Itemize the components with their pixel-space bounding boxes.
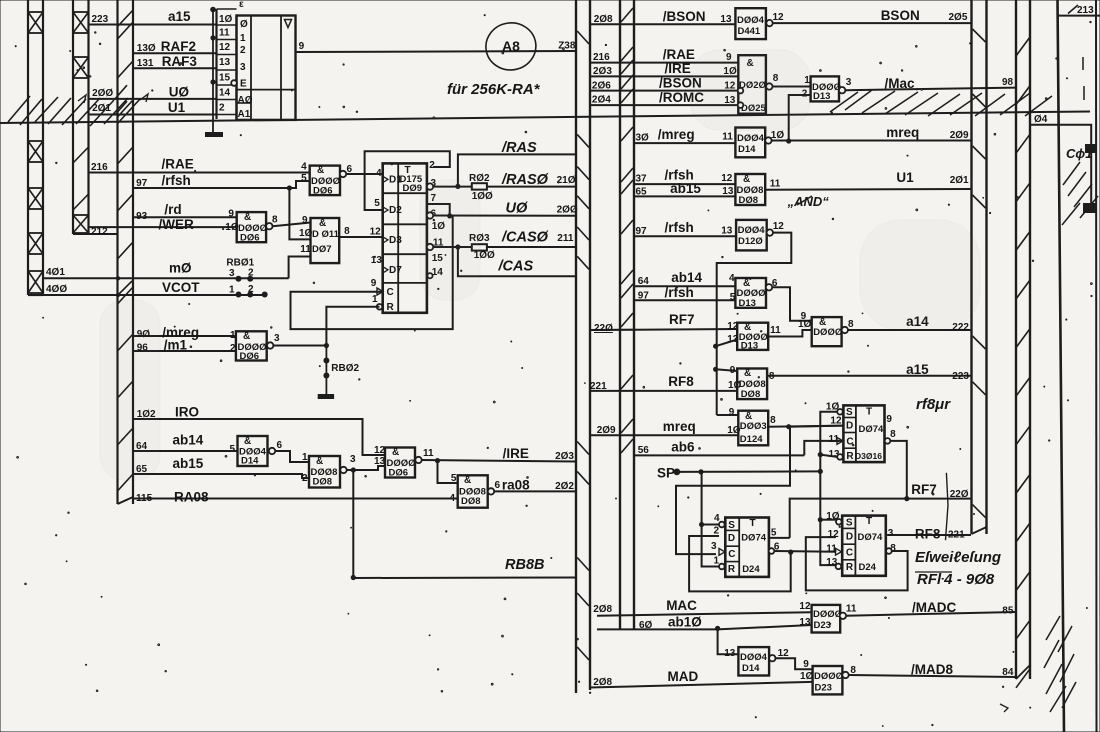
wire D175 R input bbox=[326, 307, 379, 346]
svg-text:DØ6: DØ6 bbox=[240, 351, 260, 362]
wire /WER (212) bbox=[89, 217, 237, 238]
scan toner blotches bbox=[100, 50, 980, 480]
wire FF2 Q6 to FF3 C bbox=[775, 550, 836, 555]
svg-text:3: 3 bbox=[846, 77, 852, 88]
svg-text:5: 5 bbox=[301, 173, 307, 184]
wire /RAE (216) right bbox=[590, 47, 738, 63]
wire /rd (93) bbox=[133, 202, 237, 222]
wire ab15 (65) bbox=[133, 456, 309, 478]
svg-text:D14: D14 bbox=[742, 663, 760, 674]
svg-text:D3: D3 bbox=[389, 235, 402, 246]
svg-text:D13: D13 bbox=[739, 298, 756, 309]
wire SP node bbox=[657, 466, 820, 481]
svg-text:/BSON: /BSON bbox=[663, 9, 706, 24]
gate D003/D124 (mreq+rfsh) bbox=[729, 407, 776, 445]
svg-text:D13: D13 bbox=[813, 91, 830, 102]
svg-text:D3Ø16: D3Ø16 bbox=[855, 451, 882, 461]
svg-text:/mreg: /mreg bbox=[658, 127, 695, 142]
svg-text:C: C bbox=[846, 548, 853, 559]
svg-text:13: 13 bbox=[722, 186, 734, 197]
svg-text:11: 11 bbox=[770, 179, 781, 190]
svg-text:UØ: UØ bbox=[506, 200, 528, 216]
wire /rfsh (97b) right bbox=[634, 285, 736, 303]
wire long horizontal net across sheet bbox=[0, 112, 1090, 124]
svg-text:DØØ4: DØØ4 bbox=[740, 652, 768, 663]
svg-text:D2: D2 bbox=[389, 205, 402, 216]
wire ab14 (64) bbox=[133, 433, 238, 453]
svg-text:für 256K-RA*: für 256K-RA* bbox=[447, 81, 541, 98]
svg-text:1Ø: 1Ø bbox=[219, 14, 233, 25]
gate D000 #6 (a14) bbox=[812, 317, 854, 346]
wire MAD (208) bbox=[590, 669, 814, 688]
wire D06#2 out 8 to D011 pin 9 bbox=[273, 223, 311, 227]
outer hatched bus column bbox=[1016, 0, 1030, 688]
svg-text:/RAS: /RAS bbox=[501, 140, 537, 156]
svg-text:12: 12 bbox=[773, 221, 785, 232]
svg-text:/m1: /m1 bbox=[164, 338, 188, 353]
wire /RAS0 (210) bbox=[433, 172, 576, 188]
svg-text:2Ø9: 2Ø9 bbox=[597, 425, 616, 436]
svg-text:2Ø5: 2Ø5 bbox=[949, 12, 968, 23]
svg-text:65: 65 bbox=[636, 187, 648, 198]
wire /Mac (98) bbox=[845, 76, 1015, 91]
svg-text:2Ø2: 2Ø2 bbox=[555, 481, 574, 492]
svg-text:115: 115 bbox=[136, 493, 153, 504]
svg-text:5: 5 bbox=[374, 198, 380, 209]
wire FF3 D feedback bbox=[806, 537, 908, 590]
register D175/D09 (4-bit latch) bbox=[371, 160, 445, 313]
svg-text:2Ø8: 2Ø8 bbox=[594, 14, 613, 25]
svg-text:D23: D23 bbox=[814, 620, 831, 631]
svg-text:VCOT: VCOT bbox=[162, 280, 200, 295]
svg-text:2ØØ: 2ØØ bbox=[557, 204, 578, 215]
svg-text:1: 1 bbox=[240, 33, 246, 44]
wire RF8 (221) output bbox=[887, 527, 971, 542]
wire /RAE (216) bbox=[89, 157, 310, 174]
svg-text:12: 12 bbox=[773, 12, 785, 23]
svg-text:MAC: MAC bbox=[666, 598, 697, 613]
wire D13#3 pin13 from rfsh node bbox=[716, 340, 738, 347]
wire ab6 to FF1 C bbox=[804, 441, 843, 456]
svg-text:DØØØ: DØØØ bbox=[813, 327, 842, 338]
svg-text:R: R bbox=[387, 302, 395, 313]
svg-text:13: 13 bbox=[219, 57, 231, 68]
svg-text:/MAD8: /MAD8 bbox=[911, 662, 953, 677]
svg-text:&: & bbox=[743, 174, 750, 185]
svg-text:13Ø: 13Ø bbox=[137, 43, 156, 54]
svg-text:D23: D23 bbox=[815, 683, 832, 694]
wire SP branch to FF2 S bbox=[699, 472, 719, 567]
wire ra08 (202) bbox=[494, 478, 576, 493]
svg-text:1: 1 bbox=[302, 452, 308, 463]
svg-text:64: 64 bbox=[638, 276, 650, 287]
ground under RB02 bbox=[318, 376, 334, 397]
svg-text:DØ74: DØ74 bbox=[858, 532, 884, 543]
wire /rfsh (37) bbox=[634, 168, 735, 185]
svg-text:Ø: Ø bbox=[240, 19, 248, 30]
wire RB8B bbox=[351, 470, 576, 580]
svg-text:DØ8: DØ8 bbox=[461, 496, 481, 507]
wire RAF2 (130) to IC pin 12 bbox=[133, 39, 217, 54]
wire RF7 (220) left entry bbox=[590, 312, 739, 334]
wire FF1 Q8 to RF7 bbox=[891, 441, 910, 501]
wire FF2 C from mreq8 loop bbox=[676, 427, 790, 554]
wire FF2 Q5 to RF7 bbox=[769, 537, 790, 539]
svg-text:DØ9: DØ9 bbox=[403, 183, 423, 194]
svg-text:DØ6: DØ6 bbox=[389, 468, 409, 479]
svg-text:E: E bbox=[240, 79, 247, 90]
svg-text:/MADC: /MADC bbox=[912, 600, 956, 615]
svg-text:6: 6 bbox=[277, 440, 283, 451]
wire /IRE (203) bbox=[422, 446, 576, 463]
svg-text:D24: D24 bbox=[859, 562, 877, 573]
svg-text:213: 213 bbox=[1077, 5, 1094, 16]
svg-text:/IRE: /IRE bbox=[665, 61, 691, 76]
wire to D008#2 pin5 bbox=[438, 461, 458, 484]
svg-text:RF8: RF8 bbox=[668, 374, 694, 389]
svg-text:T: T bbox=[866, 407, 872, 418]
wire /BSON (206) right bbox=[590, 76, 738, 92]
svg-text:DØØ4: DØØ4 bbox=[737, 15, 765, 26]
svg-text:8: 8 bbox=[272, 215, 278, 226]
svg-text:2Ø8: 2Ø8 bbox=[593, 677, 612, 688]
svg-text:U1: U1 bbox=[896, 170, 914, 185]
svg-text:223: 223 bbox=[952, 371, 969, 382]
svg-text:/Mac: /Mac bbox=[885, 76, 916, 91]
svg-text:3: 3 bbox=[350, 454, 356, 465]
svg-text:12: 12 bbox=[370, 227, 382, 238]
wire FF1 D from mreq8 bbox=[789, 426, 844, 427]
svg-text:RFŀ4 - 9Ø8: RFŀ4 - 9Ø8 bbox=[917, 571, 995, 588]
svg-text:3: 3 bbox=[240, 62, 246, 73]
wire D003 out 8 node bbox=[768, 424, 843, 429]
svg-text:S: S bbox=[846, 518, 853, 529]
wire RAF3 (131) to IC pin 13 bbox=[133, 54, 217, 69]
hand-drawn hatch scribbles over left buses bbox=[8, 94, 148, 126]
svg-text:2Ø6: 2Ø6 bbox=[592, 81, 611, 92]
wire FF3 Q3 to RF8 bbox=[886, 534, 887, 536]
svg-text:mØ: mØ bbox=[169, 261, 192, 276]
svg-text:S: S bbox=[846, 407, 853, 418]
svg-text:ab6: ab6 bbox=[671, 440, 695, 455]
gate D008/D08 #1 (ab14+ab15) bbox=[302, 454, 356, 488]
svg-text:RAF2: RAF2 bbox=[161, 39, 196, 54]
sheet edge vertical line bbox=[1095, 0, 1098, 732]
svg-text:6Ø: 6Ø bbox=[639, 620, 653, 631]
svg-text:AØ: AØ bbox=[238, 95, 253, 106]
wire ab10 (60) bbox=[597, 615, 812, 632]
svg-text:12: 12 bbox=[219, 42, 231, 53]
svg-text:D24: D24 bbox=[742, 564, 760, 575]
wire BSON (205) bbox=[773, 8, 971, 23]
wire FF1 R stub bbox=[820, 455, 837, 457]
svg-text:&: & bbox=[392, 447, 399, 458]
right panel left border column bbox=[620, 0, 634, 630]
annotation fuer 256K-RAM bbox=[447, 81, 541, 98]
svg-text:/rfsh: /rfsh bbox=[162, 173, 191, 188]
annotation vertical correction stroke bbox=[946, 473, 949, 540]
svg-text:/rfsh: /rfsh bbox=[665, 285, 694, 300]
svg-text:212: 212 bbox=[91, 227, 108, 238]
wire a15 (223) right bbox=[767, 362, 971, 382]
svg-text:12: 12 bbox=[799, 601, 811, 612]
svg-text:C: C bbox=[728, 549, 735, 560]
wire RF7 (220) output bbox=[790, 482, 971, 538]
svg-text:1Ø: 1Ø bbox=[299, 228, 313, 239]
svg-text:2: 2 bbox=[219, 103, 225, 114]
svg-text:3: 3 bbox=[274, 333, 280, 344]
svg-text:UØ: UØ bbox=[169, 85, 189, 100]
wire /ROMC (204) right bbox=[590, 90, 738, 106]
svg-text:/CAS: /CAS bbox=[498, 259, 534, 275]
wire rfsh inverted distribution bbox=[713, 233, 791, 415]
svg-text:22Ø: 22Ø bbox=[594, 323, 613, 334]
svg-text:3: 3 bbox=[888, 528, 894, 539]
svg-text:4Ø1: 4Ø1 bbox=[46, 267, 65, 278]
wire /MADC (85) bbox=[846, 600, 1016, 617]
left panel right border column bbox=[576, 0, 590, 693]
wire RF8 (221) left entry bbox=[590, 374, 742, 392]
svg-text:D1: D1 bbox=[389, 175, 402, 186]
svg-text:„AND“: „AND“ bbox=[787, 194, 830, 209]
svg-text:ab14: ab14 bbox=[173, 433, 204, 448]
svg-text:9: 9 bbox=[299, 41, 305, 52]
svg-text:DØ7: DØ7 bbox=[312, 244, 332, 255]
svg-text:DØØØ: DØØØ bbox=[814, 671, 843, 682]
gate D008/D08 #4 (a15) bbox=[730, 365, 775, 400]
svg-text:R: R bbox=[728, 564, 736, 575]
wire FF3 S from SP rail bbox=[820, 519, 836, 521]
wire D175 pin2 feedback loop bbox=[347, 151, 450, 174]
wire MAC (208) bbox=[593, 598, 811, 616]
wire D011 pin 11 from RB01 bbox=[289, 257, 311, 279]
capacitor C1 hand-drawn top right bbox=[1062, 57, 1098, 225]
wire mreq (209) right entry bbox=[590, 419, 741, 436]
inverter D004/D14 #3 (mreq) bbox=[735, 128, 784, 158]
gate D000/D06 #3 (mreg+m1 NAND) bbox=[230, 330, 280, 362]
svg-text:DØ74: DØ74 bbox=[859, 424, 885, 435]
svg-text:a15: a15 bbox=[906, 362, 929, 377]
gate D020/D025 (4-input AND) bbox=[738, 55, 779, 114]
wire U1 (201) to IC pin 2 bbox=[89, 100, 217, 115]
wire VCOT (400) bbox=[43, 280, 265, 297]
flip-flop D074/D24 (FF3) bbox=[826, 511, 896, 576]
svg-text:ab15: ab15 bbox=[173, 456, 204, 471]
svg-text:DØ8: DØ8 bbox=[739, 195, 759, 206]
wire FF1 S and R to SP rail bbox=[818, 412, 838, 565]
wire D025 out to D13 pin1 bbox=[773, 75, 811, 87]
svg-text:Ø4: Ø4 bbox=[1034, 114, 1048, 125]
wire D175 D2 pin 5 input bbox=[365, 174, 383, 210]
svg-text:DØ74: DØ74 bbox=[741, 533, 767, 544]
wire /BSON (208) bbox=[590, 9, 735, 25]
svg-text:RF8: RF8 bbox=[915, 527, 941, 542]
svg-text:5: 5 bbox=[771, 528, 777, 539]
svg-text:Eſweiℓeſung: Eſweiℓeſung bbox=[915, 549, 1001, 566]
svg-text:DØ8: DØ8 bbox=[313, 477, 333, 488]
svg-text:14: 14 bbox=[219, 88, 231, 99]
svg-text:DØ8: DØ8 bbox=[741, 389, 761, 400]
svg-text:13: 13 bbox=[720, 14, 732, 25]
wire D06#3 out to RB02 node bbox=[273, 343, 329, 348]
svg-text:Z38: Z38 bbox=[558, 41, 576, 52]
svg-text:D: D bbox=[846, 421, 853, 432]
annotation AND handwritten bbox=[787, 194, 830, 209]
wire /RAS tap bbox=[455, 140, 576, 189]
far right thick vertical line bbox=[1058, 0, 1065, 732]
wire /CAS0 (211) bbox=[433, 230, 576, 250]
wire RA08 (115) bbox=[133, 490, 458, 505]
gate D000/D23 #2 (MAD8) bbox=[813, 665, 857, 694]
svg-text:4: 4 bbox=[729, 273, 735, 284]
svg-text:11: 11 bbox=[770, 325, 781, 336]
svg-text:12: 12 bbox=[721, 173, 733, 184]
svg-text:9: 9 bbox=[729, 407, 735, 418]
svg-text:U1: U1 bbox=[168, 100, 186, 115]
svg-text:2ØØ: 2ØØ bbox=[92, 88, 113, 99]
svg-text:11: 11 bbox=[846, 604, 857, 615]
svg-text:37: 37 bbox=[636, 174, 648, 185]
wire /m1 (96) bbox=[133, 338, 236, 354]
wire D008#4 pin9 from rfsh node bbox=[716, 369, 738, 371]
svg-text:2: 2 bbox=[240, 45, 246, 56]
resistor R02 100 bbox=[469, 173, 493, 202]
svg-text:RØ2: RØ2 bbox=[469, 173, 490, 184]
inverter D004/D120 (rfsh) bbox=[736, 220, 784, 251]
svg-text:D14: D14 bbox=[738, 144, 756, 155]
svg-text:8: 8 bbox=[890, 429, 896, 440]
wire m0 (401) bbox=[43, 261, 289, 296]
svg-text:ab15: ab15 bbox=[670, 181, 701, 196]
svg-text:12: 12 bbox=[374, 445, 386, 456]
svg-text:2: 2 bbox=[429, 160, 435, 171]
svg-text:T: T bbox=[750, 518, 756, 529]
svg-text:DØ6: DØ6 bbox=[240, 233, 260, 244]
svg-text:2Ø3: 2Ø3 bbox=[593, 66, 612, 77]
svg-text:&: & bbox=[244, 436, 251, 447]
svg-text:2Ø3: 2Ø3 bbox=[555, 451, 574, 462]
svg-text:2Ø1: 2Ø1 bbox=[950, 175, 969, 186]
svg-text:Cɸ1: Cɸ1 bbox=[1066, 146, 1092, 161]
svg-text:&: & bbox=[316, 456, 323, 467]
wire 04 to capacitor bbox=[1030, 114, 1091, 207]
svg-text:C: C bbox=[387, 287, 394, 298]
right panel right border column bbox=[972, 0, 987, 534]
wire U0 (200) to IC pin 14 bbox=[89, 85, 217, 100]
gate D000/D06 #1 (RAE+rfsh AND) bbox=[301, 162, 352, 197]
svg-text:56: 56 bbox=[638, 445, 650, 456]
svg-text:5: 5 bbox=[230, 444, 236, 455]
annotation circle A8 bbox=[483, 20, 539, 74]
svg-text:2: 2 bbox=[230, 343, 236, 354]
annotation Erweiterung handwritten bbox=[915, 549, 1001, 588]
svg-text:6: 6 bbox=[495, 480, 501, 491]
svg-text:97: 97 bbox=[136, 178, 148, 189]
wire IC output 9 / Z38 to edge bbox=[296, 41, 577, 52]
svg-text:8: 8 bbox=[848, 319, 854, 330]
svg-text:/RAE: /RAE bbox=[162, 157, 194, 172]
svg-text:2: 2 bbox=[714, 526, 720, 537]
svg-text:223: 223 bbox=[92, 14, 109, 25]
svg-text:BSON: BSON bbox=[881, 8, 920, 23]
svg-text:MAD: MAD bbox=[668, 669, 699, 684]
svg-text:D7: D7 bbox=[389, 265, 402, 276]
svg-text:rf8μr: rf8μr bbox=[916, 396, 951, 413]
wire D13#2 out to D000#6 pin9 bbox=[772, 287, 812, 322]
svg-text:4: 4 bbox=[301, 162, 307, 173]
svg-text:9: 9 bbox=[803, 659, 809, 670]
gate D000/D13 #2 (ab14 rfsh) bbox=[735, 278, 778, 309]
svg-text:/rfsh: /rfsh bbox=[665, 220, 694, 235]
svg-text:1Ø: 1Ø bbox=[798, 319, 812, 330]
svg-text:ab14: ab14 bbox=[671, 270, 702, 285]
svg-text:22Ø: 22Ø bbox=[950, 489, 969, 500]
svg-text:211: 211 bbox=[557, 233, 574, 244]
wire D14#1 out to D008#1 pin1 bbox=[275, 451, 309, 463]
wire D008#1 out node bbox=[347, 456, 386, 473]
svg-text:84: 84 bbox=[1002, 667, 1014, 678]
wire U0 out (200) bbox=[433, 200, 578, 218]
gate D008/D08 #2 (ra08) bbox=[450, 475, 501, 508]
svg-text:5: 5 bbox=[451, 473, 457, 484]
annotation rf8ur handwritten bbox=[916, 396, 951, 413]
wire 213 stub top right bbox=[1058, 5, 1100, 16]
svg-text:D441: D441 bbox=[738, 26, 761, 37]
svg-text:216: 216 bbox=[91, 162, 108, 173]
wire /mreg (90) bbox=[133, 325, 236, 340]
svg-text:&: & bbox=[243, 331, 250, 342]
wire /MAD8 (84) bbox=[849, 662, 1016, 678]
wire D175 C input from U0 loop bbox=[291, 216, 453, 329]
gate D008/D08 #3 (U1) bbox=[735, 174, 780, 206]
wire ab15 (65) right bbox=[634, 181, 735, 198]
svg-text:13: 13 bbox=[371, 255, 383, 266]
svg-text:2Ø9: 2Ø9 bbox=[950, 130, 969, 141]
svg-text:2Ø8: 2Ø8 bbox=[593, 604, 612, 615]
wire ab6 (56) bbox=[634, 440, 804, 457]
svg-text:R: R bbox=[846, 451, 854, 462]
wire a14 (222) bbox=[848, 314, 971, 333]
svg-text:S: S bbox=[728, 520, 735, 531]
wire /rfsh (97) right bbox=[634, 220, 736, 237]
gate D011/D07 (3-input AND) bbox=[299, 215, 350, 263]
inverter D004/D441 (BSON) bbox=[735, 8, 784, 39]
jumper RB02 bbox=[323, 346, 359, 379]
svg-text:12: 12 bbox=[828, 529, 840, 540]
svg-text:A8: A8 bbox=[502, 38, 520, 54]
jumper RB01 bbox=[226, 257, 267, 297]
wire D13#1 pin2 from mreq bbox=[789, 95, 811, 141]
svg-text:&: & bbox=[744, 368, 751, 379]
svg-text:R: R bbox=[846, 562, 854, 573]
svg-text:ε: ε bbox=[239, 0, 244, 10]
wire /rfsh (97) with branch bbox=[133, 173, 310, 239]
svg-text:21Ø: 21Ø bbox=[557, 175, 576, 186]
svg-text:/RAE: /RAE bbox=[663, 47, 695, 62]
svg-text:&: & bbox=[319, 218, 326, 229]
svg-text:D14: D14 bbox=[241, 456, 259, 467]
svg-text:DØØØ: DØØØ bbox=[813, 609, 842, 620]
bus A (left connector column with X marks) bbox=[28, 0, 43, 295]
svg-text:1Ø: 1Ø bbox=[771, 130, 785, 141]
ground under IC U1 bbox=[205, 7, 223, 135]
svg-text:DØØ4: DØØ4 bbox=[738, 225, 766, 236]
wire D003 pin9 from rfsh node bbox=[717, 414, 739, 416]
wire a15 (223) to IC pin 10 bbox=[89, 9, 217, 26]
svg-text:131: 131 bbox=[137, 58, 154, 69]
wire D011 out 8 to D175 D3 pin 12 bbox=[339, 227, 383, 238]
svg-text:15: 15 bbox=[219, 73, 231, 84]
